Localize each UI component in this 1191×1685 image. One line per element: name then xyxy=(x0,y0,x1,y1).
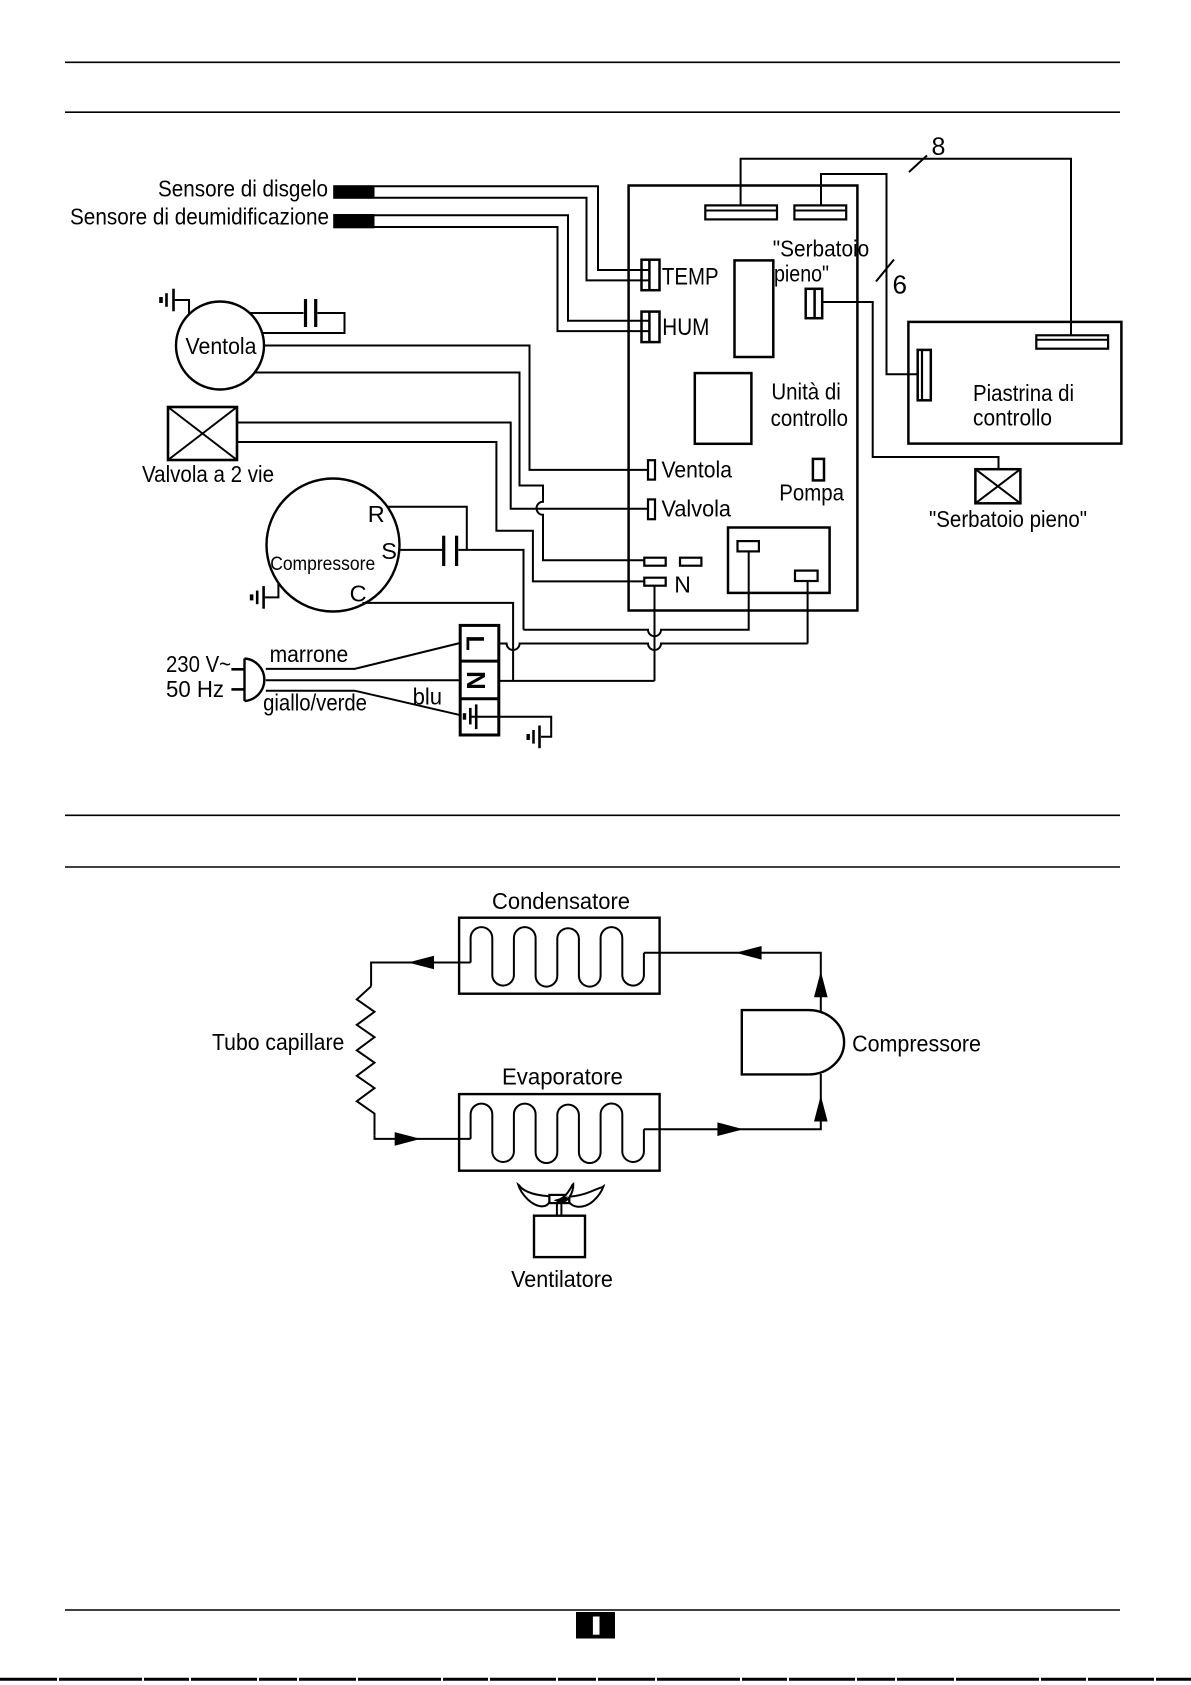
svg-text:"Serbatoio pieno": "Serbatoio pieno" xyxy=(929,506,1087,532)
tick slash on wire 6 xyxy=(876,260,894,282)
evaporator box xyxy=(459,1094,659,1171)
capillary tube zigzag Tubo capillare xyxy=(357,986,375,1136)
svg-text:Sensore di disgelo: Sensore di disgelo xyxy=(158,175,328,201)
control board box Piastrina di controllo xyxy=(908,322,1121,444)
wire Ventola V1 to connector xyxy=(264,346,648,470)
sensor deumidificazione probe (black block) xyxy=(333,214,374,228)
fan propeller centre blade xyxy=(557,1184,574,1202)
mains plug xyxy=(231,659,264,702)
relay box below Pompa xyxy=(728,528,830,593)
ground symbol at Compressore xyxy=(252,584,279,609)
page rule 2 xyxy=(65,111,1120,113)
svg-text:TEMP: TEMP xyxy=(662,264,719,291)
footer page marker box xyxy=(576,1612,615,1639)
wire disgelo B to TEMP xyxy=(375,198,650,281)
fan propeller right blade xyxy=(569,1186,603,1206)
svg-text:S: S xyxy=(381,538,397,564)
connector Valvola xyxy=(648,499,655,519)
relay bar 1 xyxy=(738,541,759,551)
connector bar inside Piastrina xyxy=(1036,335,1108,348)
fan propeller left blade xyxy=(518,1185,549,1207)
wire relay bar2 stub down xyxy=(807,581,809,644)
svg-text:Piastrina di: Piastrina di xyxy=(973,380,1074,406)
svg-text:Ventola: Ventola xyxy=(186,333,257,359)
svg-text:Compressore: Compressore xyxy=(852,1031,981,1057)
tick slash on wire 8 xyxy=(909,156,927,173)
wire blu to N xyxy=(266,679,460,681)
wire Ventola V2 to bar (hops over valvola wire) xyxy=(255,373,645,561)
earth symbol inside terminal xyxy=(465,704,499,729)
sensor disgelo probe (black block) xyxy=(333,185,374,199)
page rule 3 xyxy=(65,814,1120,816)
wire line2 L to relay bar2 (hops at C wire and N stub) xyxy=(499,644,808,651)
ground symbol at Ventola xyxy=(161,289,189,314)
svg-text:Condensatore: Condensatore xyxy=(492,888,630,914)
page rule 4 xyxy=(65,866,1120,868)
valve Valvola a 2 vie xyxy=(168,407,237,460)
wire N bar stub down xyxy=(654,586,656,681)
wire valvola VA2 to N bar xyxy=(237,442,644,581)
float switch X box Serbatoio pieno xyxy=(975,469,1020,503)
svg-text:Ventola: Ventola xyxy=(662,456,733,482)
connector Pompa xyxy=(813,459,824,481)
connector bar 2 on top of control unit xyxy=(794,205,846,219)
svg-text:Valvola: Valvola xyxy=(662,496,732,522)
motor Compressore xyxy=(267,479,400,612)
wire capillary to evaporator xyxy=(375,1136,471,1139)
fan blade root hook xyxy=(555,1196,568,1202)
svg-text:Unità di: Unità di xyxy=(771,378,840,404)
connector Ventola xyxy=(648,460,655,479)
wire deumid D to HUM xyxy=(375,227,650,331)
svg-text:giallo/verde: giallo/verde xyxy=(263,689,367,715)
fan hub xyxy=(549,1195,569,1203)
svg-text:6: 6 xyxy=(893,270,907,300)
IC tall rectangle inside control unit xyxy=(735,260,774,357)
motor Ventola xyxy=(176,302,264,390)
svg-text:L: L xyxy=(461,636,489,651)
compressor D shape xyxy=(742,1010,844,1074)
svg-text:pieno": pieno" xyxy=(774,260,829,286)
terminal block L N earth xyxy=(460,625,499,735)
connector HUM xyxy=(642,312,660,343)
wire R to junction xyxy=(388,507,467,550)
svg-text:HUM: HUM xyxy=(662,314,709,341)
arrow condenser out xyxy=(408,956,434,970)
wire valvola VA1 to connector xyxy=(237,423,648,509)
arrow evaporator out xyxy=(717,1122,743,1136)
svg-text:8: 8 xyxy=(932,133,946,161)
connector bar A xyxy=(644,558,665,566)
wire S to capacitor xyxy=(398,549,442,551)
svg-text:Pompa: Pompa xyxy=(779,480,844,506)
relay bar 2 xyxy=(795,571,818,581)
fan shaft xyxy=(557,1203,562,1216)
svg-text:Compressore: Compressore xyxy=(270,554,375,575)
wire disgelo A to TEMP xyxy=(375,186,650,270)
wire 6 from bar2 to Piastrina connector xyxy=(821,174,918,374)
arrow up into compressor xyxy=(814,1096,828,1122)
ground symbol external xyxy=(528,726,539,749)
condenser coil xyxy=(471,927,644,986)
svg-text:N: N xyxy=(461,671,491,690)
page rule footer xyxy=(65,1609,1120,1611)
svg-text:230 V~: 230 V~ xyxy=(166,651,231,677)
capacitor run cap of Ventola xyxy=(250,299,345,333)
wire marrone to L xyxy=(266,643,460,669)
arrow up from compressor xyxy=(814,971,828,997)
svg-text:marrone: marrone xyxy=(270,641,349,667)
page rule 1 xyxy=(65,61,1120,63)
svg-text:"Serbatoio: "Serbatoio xyxy=(773,236,869,262)
svg-text:50 Hz: 50 Hz xyxy=(166,676,224,702)
wire 8 from bar1 to Piastrina bar xyxy=(741,159,1071,335)
control unit box Unità di controllo xyxy=(629,186,858,611)
bottom dashed edge xyxy=(0,1678,1191,1681)
wire deumid C to HUM xyxy=(375,215,650,321)
svg-text:R: R xyxy=(368,501,385,527)
connector bar N xyxy=(644,578,665,586)
fan motor box Ventilatore xyxy=(534,1216,585,1257)
svg-text:N: N xyxy=(674,572,691,598)
connector bar B xyxy=(680,558,701,566)
wire line1 to pompa relay bar (hop at N stub) xyxy=(524,551,749,636)
wire condenser out to capillary xyxy=(371,963,471,987)
capacitor start cap of Compressore xyxy=(444,536,457,566)
svg-text:Valvola a 2 vie: Valvola a 2 vie xyxy=(142,461,274,487)
svg-text:Sensore di deumidificazione: Sensore di deumidificazione xyxy=(70,204,329,230)
wire cap to line1 vertical xyxy=(458,550,523,630)
svg-text:Evaporatore: Evaporatore xyxy=(502,1064,623,1090)
connector bar 1 on top of control unit xyxy=(705,205,777,219)
wire C to N line xyxy=(362,603,513,681)
arrow into condenser xyxy=(736,946,762,960)
wire N line xyxy=(499,680,655,682)
condenser box xyxy=(459,918,659,994)
connector TEMP xyxy=(642,260,660,291)
svg-text:controllo: controllo xyxy=(771,405,848,431)
arrow into evaporator xyxy=(395,1132,421,1146)
svg-text:controllo: controllo xyxy=(973,404,1052,430)
wire giallo/verde to earth xyxy=(266,691,461,716)
IC square inside control unit xyxy=(695,373,752,444)
svg-text:Tubo capillare: Tubo capillare xyxy=(212,1029,344,1055)
wire serbatoio connector to float switch xyxy=(822,302,998,469)
connector serbatoio pieno xyxy=(806,289,823,318)
connector left of Piastrina xyxy=(918,350,931,400)
wire evaporator out to compressor xyxy=(644,1074,821,1129)
svg-text:Ventilatore: Ventilatore xyxy=(511,1266,613,1292)
wire terminal earth to external ground xyxy=(499,717,551,737)
evaporator coil xyxy=(471,1104,644,1164)
wire compressor out to condenser xyxy=(644,953,821,1011)
